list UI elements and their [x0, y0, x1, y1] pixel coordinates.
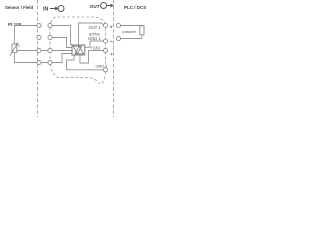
- polarity minus: [110, 41, 112, 43]
- wire terminal row1 device side to block: [52, 26, 72, 45]
- PLC burden resistor: [140, 26, 144, 35]
- svg-text:passive: passive: [122, 29, 136, 34]
- svg-text:OUT: OUT: [90, 4, 100, 10]
- svg-text:OUT 1: OUT 1: [89, 25, 102, 30]
- svg-text:GND 1: GND 1: [88, 36, 101, 41]
- Pt 100 sensor wires: [14, 26, 72, 63]
- wire block to OUT 1 terminal: [79, 23, 104, 45]
- device dashed outline right edge: [105, 23, 107, 67]
- sensor diagonal arrow: [10, 44, 17, 56]
- IN icon arrow into circle: [50, 6, 64, 12]
- PLC input loop wires: [121, 26, 142, 39]
- wire sensor top to terminal row 1: [14, 26, 40, 45]
- wire sensor side to terminal row 3 and block: [17, 50, 72, 52]
- field terminal circles column 1: [37, 23, 41, 64]
- device IN terminal circles column 2: [48, 23, 52, 64]
- device dashed outline left edge: [49, 23, 51, 63]
- wire block to GND 1 terminal: [85, 41, 104, 47]
- svg-text:IN: IN: [43, 6, 48, 12]
- wire terminal row2 device side to block: [52, 38, 72, 48]
- Pt 100 sensor resistor body: [12, 44, 17, 53]
- svg-text:Pt 100: Pt 100: [8, 22, 22, 27]
- wire block to GND 2 terminal: [67, 55, 104, 70]
- wire block to +24V terminal: [80, 51, 103, 64]
- isolator block output wires: [67, 23, 104, 70]
- svg-text:Sensor / Field: Sensor / Field: [5, 5, 33, 10]
- zone boundary dashed line right: [113, 0, 115, 117]
- svg-text:PLC / DCS: PLC / DCS: [124, 5, 146, 10]
- device OUT terminal circles column 3: [103, 23, 107, 72]
- OUT icon circle with arrow out: [101, 3, 115, 9]
- isolation symbol triangles: [73, 46, 82, 54]
- svg-text:ϑ: ϑ: [18, 44, 20, 48]
- device dashed outline bottom curve: [50, 64, 105, 84]
- device dashed outline top arc: [51, 17, 106, 23]
- polarity plus 2: [110, 53, 112, 55]
- wire sensor bottom to terminal row 4 and block: [14, 53, 72, 63]
- PLC terminal circles column 4: [116, 23, 120, 40]
- zone boundary dashed line left: [37, 0, 39, 117]
- isolator block U1: [72, 45, 85, 55]
- polarity plus: [110, 26, 113, 29]
- svg-text:+24V: +24V: [91, 46, 101, 51]
